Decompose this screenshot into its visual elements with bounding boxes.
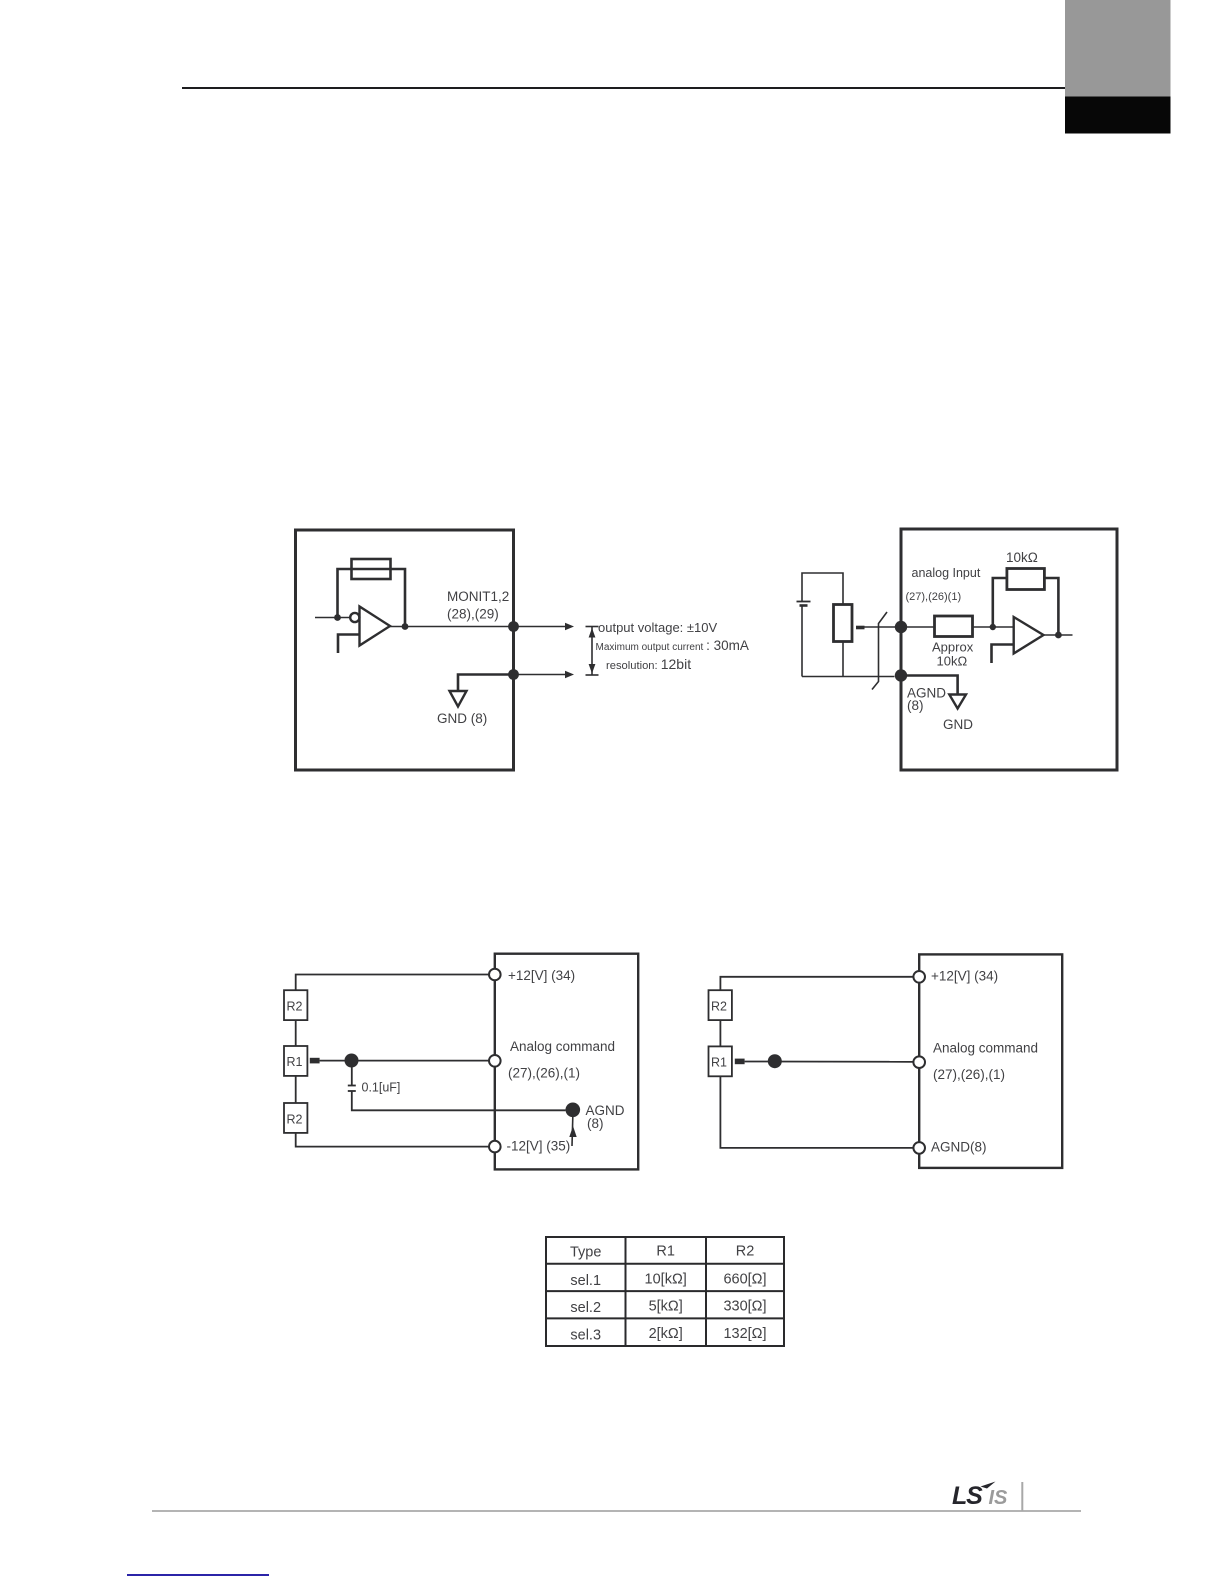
svg-text:sel.1: sel.1 bbox=[570, 1273, 601, 1289]
svg-text:R1: R1 bbox=[287, 1055, 303, 1069]
op-amp U1 bbox=[360, 607, 391, 646]
footer separator bar bbox=[1021, 1482, 1023, 1511]
node MONIT pin on box edge bbox=[508, 621, 519, 632]
svg-text:analog Input: analog Input bbox=[912, 566, 981, 580]
svg-text:LS: LS bbox=[952, 1482, 983, 1510]
svg-text:output voltage: ±10V: output voltage: ±10V bbox=[598, 620, 717, 635]
svg-text:10kΩ: 10kΩ bbox=[937, 654, 968, 669]
svg-text:Maximum output current : 30mA: Maximum output current : 30mA bbox=[596, 638, 749, 653]
svg-text:R2: R2 bbox=[287, 1113, 303, 1127]
svg-text:Type: Type bbox=[570, 1245, 601, 1261]
wire bottom return bbox=[802, 676, 895, 678]
terminal analog command bbox=[489, 1055, 501, 1067]
cable slash marks bbox=[872, 612, 887, 690]
svg-text:0.1[uF]: 0.1[uF] bbox=[362, 1081, 401, 1095]
svg-text:Analog command: Analog command bbox=[933, 1041, 1038, 1056]
wire AGND chain bbox=[720, 1076, 913, 1148]
svg-text:2[kΩ]: 2[kΩ] bbox=[649, 1326, 683, 1342]
table row line 3 bbox=[546, 1317, 784, 1319]
ground symbol 2 bbox=[949, 695, 966, 709]
svg-text:(27),(26),(1): (27),(26),(1) bbox=[933, 1067, 1005, 1082]
svg-text:(27),(26),(1): (27),(26),(1) bbox=[508, 1066, 580, 1081]
wire resistor to op-amp U2 bbox=[973, 626, 1014, 628]
table outer border bbox=[546, 1237, 784, 1346]
wire non-inverting input stub U1 bbox=[338, 635, 360, 654]
resistor R1 bbox=[709, 1046, 732, 1076]
wire R2-R1 bbox=[719, 1020, 721, 1046]
svg-text:660[Ω]: 660[Ω] bbox=[723, 1272, 766, 1288]
node wiper junction bbox=[345, 1054, 359, 1068]
node output junction U2 bbox=[1055, 632, 1062, 639]
dimension line output voltage bbox=[591, 627, 593, 675]
wire +12V chain bbox=[296, 975, 489, 991]
wire input to series resistor bbox=[901, 626, 935, 628]
capacitor C1 0.1uF bbox=[351, 1067, 353, 1086]
svg-text:(8): (8) bbox=[587, 1116, 604, 1131]
wire input to op-amp U1 bbox=[315, 617, 350, 619]
svg-text:GND: GND bbox=[943, 717, 973, 732]
wire -12V chain bbox=[296, 1133, 489, 1147]
svg-text:Approx: Approx bbox=[932, 640, 974, 655]
svg-text:R2: R2 bbox=[711, 1000, 727, 1014]
svg-text:+12[V] (34): +12[V] (34) bbox=[931, 969, 998, 984]
node analog input pin bbox=[895, 621, 907, 633]
node junction input bbox=[334, 614, 341, 621]
wire op-amp output stub bbox=[1044, 634, 1073, 636]
drive box 4 bbox=[919, 954, 1062, 1168]
svg-text:R2: R2 bbox=[736, 1244, 755, 1260]
wire R1-R2 bbox=[295, 1076, 297, 1103]
svg-text:132[Ω]: 132[Ω] bbox=[723, 1326, 766, 1342]
table column line 1 bbox=[625, 1237, 627, 1346]
node feedback junction bbox=[990, 624, 996, 630]
wire MONIT output arrow bbox=[514, 626, 566, 628]
wiper arrow R1 bbox=[735, 1059, 745, 1065]
battery source bbox=[802, 573, 843, 605]
footer rule bbox=[152, 1510, 1081, 1512]
potentiometer VR1 bbox=[834, 605, 853, 642]
svg-text:(8): (8) bbox=[907, 698, 924, 713]
svg-text:(27),(26)(1): (27),(26)(1) bbox=[906, 591, 962, 603]
svg-text:+12[V] (34): +12[V] (34) bbox=[508, 968, 575, 983]
svg-text:AGND(8): AGND(8) bbox=[931, 1140, 987, 1155]
resistor R2 top bbox=[284, 990, 307, 1020]
terminal +12V bbox=[489, 969, 501, 981]
footer link underline bbox=[127, 1574, 269, 1576]
wire non-inverting stub U2 bbox=[992, 645, 1014, 664]
table row line 1 bbox=[546, 1263, 784, 1265]
svg-text:330[Ω]: 330[Ω] bbox=[723, 1299, 766, 1315]
table row line 2 bbox=[546, 1290, 784, 1292]
wire +12V chain bbox=[720, 977, 913, 990]
drive box 3 bbox=[495, 954, 638, 1170]
wiper arrow R1 bbox=[310, 1058, 320, 1064]
node AGND pin bbox=[895, 669, 907, 681]
svg-text:R1: R1 bbox=[656, 1244, 675, 1260]
terminal analog command bbox=[913, 1056, 925, 1068]
svg-text:10kΩ: 10kΩ bbox=[1006, 550, 1038, 565]
svg-text:R2: R2 bbox=[287, 1000, 303, 1014]
page corner tab gray bbox=[1065, 0, 1171, 97]
svg-text:-12[V] (35): -12[V] (35) bbox=[507, 1139, 571, 1154]
wire feedback loop U1 bbox=[338, 569, 406, 627]
AGND tail arrow bbox=[571, 1117, 574, 1146]
svg-text:R1: R1 bbox=[711, 1056, 727, 1070]
node AGND internal bbox=[566, 1103, 581, 1118]
wire wiper to analog input pin bbox=[865, 626, 896, 628]
wire AGND to ground bbox=[901, 676, 958, 695]
table column line 2 bbox=[705, 1237, 707, 1346]
wire wiper to analog command bbox=[320, 1060, 489, 1062]
header rule bbox=[182, 87, 1068, 89]
wire feedback right side bbox=[1044, 578, 1058, 635]
svg-text:(28),(29): (28),(29) bbox=[447, 607, 499, 622]
resistor R2 bottom bbox=[284, 1103, 307, 1133]
resistor feedback 10k bbox=[1007, 569, 1045, 590]
terminal AGND bbox=[913, 1142, 925, 1154]
svg-text:sel.3: sel.3 bbox=[570, 1328, 601, 1344]
node GND pin on box edge bbox=[508, 669, 519, 680]
wire op-amp output to MONIT pin bbox=[390, 626, 514, 628]
resistor R1 bbox=[284, 1046, 307, 1076]
drive box 1 bbox=[296, 530, 514, 770]
wire feedback loop U2 bbox=[993, 578, 1007, 627]
resistor feedback R-fb1 bbox=[352, 559, 391, 579]
wire GND pin to ground bbox=[458, 675, 514, 692]
svg-text:5[kΩ]: 5[kΩ] bbox=[649, 1299, 683, 1315]
wire R2-R1 bbox=[295, 1020, 297, 1046]
terminal -12V bbox=[489, 1141, 501, 1153]
wire wiper to analog command bbox=[745, 1061, 914, 1063]
wire capacitor to AGND bbox=[352, 1091, 566, 1110]
wiper arrow VR1 bbox=[856, 626, 865, 630]
inverting input bubble U1 bbox=[350, 613, 359, 622]
resistor series approx 10k bbox=[935, 616, 973, 637]
node output junction bbox=[402, 623, 409, 630]
page corner tab black bbox=[1065, 97, 1171, 134]
svg-text:10[kΩ]: 10[kΩ] bbox=[645, 1272, 687, 1288]
svg-text:MONIT1,2: MONIT1,2 bbox=[447, 589, 509, 604]
terminal +12V bbox=[913, 971, 925, 983]
node wiper junction bbox=[768, 1054, 782, 1068]
svg-text:IS: IS bbox=[989, 1487, 1009, 1509]
svg-text:resolution: 12bit: resolution: 12bit bbox=[606, 656, 691, 672]
svg-text:Analog command: Analog command bbox=[510, 1039, 615, 1054]
wire GND output arrow bbox=[514, 674, 566, 676]
op-amp U2 bbox=[1014, 617, 1044, 654]
ground symbol bbox=[450, 691, 467, 707]
svg-text:GND (8): GND (8) bbox=[437, 711, 487, 726]
resistor R2 bbox=[709, 990, 732, 1020]
svg-text:sel.2: sel.2 bbox=[570, 1300, 601, 1316]
drive box 2 bbox=[901, 529, 1117, 770]
